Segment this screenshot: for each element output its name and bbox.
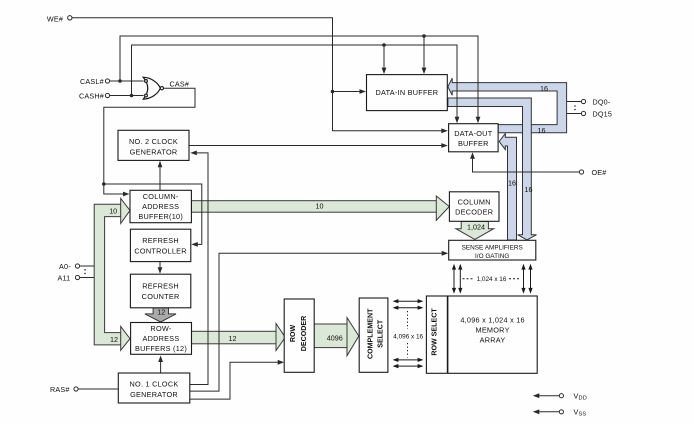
data bus DATA-IN BUFFER to SENSE AMPLIFIERS — [448, 98, 537, 240]
svg-text:REFRESH: REFRESH — [142, 236, 179, 245]
junction dot CASH/DATA-IN — [382, 43, 386, 47]
svg-text:COLUMN-: COLUMN- — [143, 192, 179, 201]
terminal WE# — [68, 16, 72, 20]
double arrows SENSE AMPLIFIERS to MEMORY ARRAY (right) — [523, 266, 525, 292]
wire DQ15 stub — [567, 113, 582, 115]
data bus DQ pads to DATA-IN BUFFER and from DATA-OUT BUFFER — [448, 78, 567, 133]
svg-text:RAS#: RAS# — [50, 385, 70, 394]
svg-text:DATA-IN BUFFER: DATA-IN BUFFER — [375, 88, 438, 97]
junction dot CASL# — [118, 79, 122, 83]
svg-text:MEMORY: MEMORY — [475, 326, 509, 335]
svg-text:CASL#: CASL# — [80, 77, 104, 86]
svg-text:10: 10 — [316, 202, 324, 211]
wire CAS# branch to REFRESH CONTROLLER — [104, 184, 202, 244]
wire DQ0 stub — [567, 101, 582, 103]
wire REFRESH CONTROLLER to REFRESH COUNTER — [159, 262, 161, 272]
terminal CASH# — [105, 93, 109, 97]
wire CASH# to gate input — [110, 95, 144, 97]
arrow into ROW DECODER left — [278, 360, 285, 365]
bus arrowhead into COLUMN-ADDRESS BUFFER — [121, 198, 130, 223]
svg-text:GENERATOR: GENERATOR — [130, 390, 178, 399]
arrow into DATA-IN left — [360, 89, 367, 94]
wire RAS# to NO.1 CLOCK — [78, 388, 118, 390]
svg-text:16: 16 — [540, 84, 548, 93]
box ROW SELECT + MEMORY ARRAY — [426, 296, 537, 373]
arrow into REFRESH COUNTER top — [158, 267, 163, 274]
junction dot CASH# — [130, 94, 134, 98]
wire OE# to DATA-OUT buffer — [473, 154, 580, 172]
ellipsis dots DQ — [574, 105, 576, 107]
box ROW DECODER — [284, 299, 314, 372]
junction dot CAS# branch — [102, 182, 106, 186]
svg-text:DQ15: DQ15 — [593, 109, 613, 118]
gate U1 CAS (NOR shape with bubbles) — [143, 77, 160, 99]
bus 10 COLUMN-ADDRESS to COLUMN DECODER — [191, 201, 436, 213]
svg-text:ROW SELECT: ROW SELECT — [431, 308, 439, 356]
terminal CASL# — [105, 79, 109, 83]
svg-text:1,024 x 16: 1,024 x 16 — [477, 276, 507, 283]
arrow into NO.2 bottom — [158, 161, 163, 168]
svg-text:DATA-OUT: DATA-OUT — [454, 129, 493, 138]
wire CASL branch to DATA-IN top — [423, 36, 425, 72]
svg-text:10: 10 — [109, 207, 117, 216]
terminal OE# — [579, 170, 583, 174]
wire CASH# loop to DATA-OUT top — [132, 45, 458, 121]
svg-text:12: 12 — [229, 334, 237, 343]
svg-text:VDD: VDD — [574, 392, 587, 402]
svg-text:DECODER: DECODER — [300, 316, 308, 351]
svg-text:ROW: ROW — [289, 325, 297, 343]
wire CAS# output loop to COLUMN-ADDRESS BUFFER — [104, 88, 195, 194]
arrow into COLUMN-ADDRESS BUFFER left — [123, 192, 130, 197]
wire NO.2 CLOCK to DATA-OUT buffer — [189, 145, 445, 147]
svg-text:COLUMN: COLUMN — [458, 197, 491, 206]
address bus trunk (A0-A11) — [94, 204, 121, 345]
terminal A11 — [75, 275, 79, 279]
svg-text:16: 16 — [525, 185, 533, 194]
svg-text:VSS: VSS — [574, 408, 587, 418]
svg-text:GENERATOR: GENERATOR — [130, 148, 178, 157]
terminal A0- — [75, 264, 79, 268]
terminal DQ15 — [581, 111, 585, 115]
double arrows COMPLEMENT SELECT to ROW SELECT (top) — [394, 300, 422, 302]
svg-text:4,096 x 16: 4,096 x 16 — [393, 333, 423, 340]
wire WE# branch to DATA-IN left — [333, 91, 365, 93]
box COLUMN DECODER — [449, 192, 499, 222]
box NO. 2 CLOCK GENERATOR — [118, 130, 189, 160]
svg-text:ADDRESS: ADDRESS — [142, 202, 179, 211]
svg-text:ARRAY: ARRAY — [480, 336, 506, 345]
wire CASL# loop to DATA-OUT top — [120, 36, 478, 121]
arrow into REFRESH CONTROLLER right — [191, 242, 198, 247]
svg-text:COUNTER: COUNTER — [142, 292, 180, 301]
svg-text:CAS#: CAS# — [170, 80, 190, 89]
arrow into DATA-IN top (CASL net) — [422, 68, 427, 75]
svg-text:A0-: A0- — [59, 262, 71, 271]
divider ROW SELECT / MEMORY ARRAY — [447, 296, 449, 373]
svg-text:1,024: 1,024 — [467, 223, 485, 232]
terminal DQ0 — [581, 99, 585, 103]
arrow into DATA-OUT top (CASH net) — [455, 117, 460, 124]
bus 1,024 COLUMN DECODER to SENSE AMPLIFIERS — [456, 221, 494, 239]
arrow into NO.2 right — [190, 151, 197, 156]
svg-text:SELECT: SELECT — [376, 319, 384, 348]
double arrows SENSE AMPLIFIERS to MEMORY ARRAY (left) — [453, 266, 455, 292]
svg-text:ADDRESS: ADDRESS — [142, 334, 179, 343]
box COLUMN-ADDRESS BUFFER(10) — [130, 190, 191, 222]
bus 4096 ROW DECODER to COMPLEMENT SELECT — [314, 324, 347, 348]
box COMPLEMENT SELECT — [359, 298, 388, 372]
svg-text:BUFFER(10): BUFFER(10) — [138, 212, 183, 221]
junction dot CASL/DATA-IN — [422, 34, 426, 38]
svg-text:CASH#: CASH# — [79, 91, 104, 100]
box DATA-OUT BUFFER — [449, 124, 499, 152]
wire WE# to DATA-OUT buffer left — [72, 18, 445, 131]
arrow into DATA-OUT top (CASL net) — [476, 117, 481, 124]
svg-text:DQ0-: DQ0- — [593, 97, 611, 106]
svg-text:WE#: WE# — [47, 14, 63, 23]
box DATA-IN BUFFER — [367, 75, 448, 111]
wire COLUMN-ADDRESS BUFFER to NO.2 CLOCK — [159, 163, 161, 190]
svg-text:BUFFER: BUFFER — [458, 139, 489, 148]
gray bus 12 REFRESH COUNTER to ROW-ADDRESS BUFFERS — [145, 308, 176, 322]
svg-text:I/O GATING: I/O GATING — [475, 253, 509, 260]
wire NO.1 CLOCK output to NO.2 CLOCK — [190, 153, 208, 385]
svg-text:A11: A11 — [58, 273, 71, 282]
wire CASL# to gate input — [110, 80, 144, 82]
legend VSS arrow — [535, 411, 559, 413]
box REFRESH CONTROLLER — [130, 229, 190, 261]
wire NO.1 CLOCK to ROW-ADDRESS BUFFERS — [160, 358, 162, 373]
bus 12 ROW-ADDRESS to ROW DECODER — [192, 331, 277, 344]
svg-text:OE#: OE# — [592, 168, 607, 177]
svg-text:16: 16 — [538, 126, 546, 135]
svg-text:NO. 2 CLOCK: NO. 2 CLOCK — [129, 137, 178, 146]
arrow into DATA-IN top (CASH net) — [382, 68, 387, 75]
arrow into DATA-OUT left (WE# net) — [441, 128, 448, 133]
legend VDD arrow — [535, 395, 559, 397]
box ROW-ADDRESS BUFFERS (12) — [131, 323, 192, 355]
data bus SENSE AMPLIFIERS to DATA-OUT BUFFER — [499, 134, 516, 240]
double arrows COMPLEMENT SELECT to ROW SELECT (bottom) — [394, 359, 422, 361]
arrow into SENSE AMPLIFIERS left — [442, 251, 449, 256]
wire CASH branch to DATA-IN top — [383, 45, 385, 72]
svg-text:ROW-: ROW- — [150, 324, 171, 333]
svg-text:4,096 x 1,024 x 16: 4,096 x 1,024 x 16 — [460, 316, 525, 325]
svg-text:4096: 4096 — [327, 334, 343, 343]
svg-text:16: 16 — [508, 178, 516, 187]
bus arrowhead into ROW-ADDRESS BUFFERS — [121, 326, 130, 350]
dashed line 1,024 x 16 — [463, 278, 475, 280]
wire NO.1 CLOCK output to ROW DECODER — [190, 362, 282, 399]
svg-text:BUFFERS (12): BUFFERS (12) — [135, 344, 187, 353]
box SENSE AMPLIFIERS I/O GATING — [449, 240, 536, 260]
svg-text:REFRESH: REFRESH — [142, 282, 179, 291]
box REFRESH COUNTER — [130, 274, 190, 308]
svg-text:SENSE AMPLIFIERS: SENSE AMPLIFIERS — [462, 244, 523, 251]
arrow into DATA-OUT left (NO.2 net) — [441, 143, 448, 148]
ellipsis dots A0-A11 — [84, 269, 86, 271]
junction dot WE#/DATA-IN branch — [331, 90, 335, 94]
wire A11 to address bus — [80, 277, 95, 279]
arrow into DATA-OUT bottom (OE# net) — [470, 152, 475, 159]
terminal RAS# — [74, 387, 78, 391]
dotted line 4,096 x 16 — [407, 311, 409, 329]
svg-text:CONTROLLER: CONTROLLER — [134, 247, 186, 256]
svg-text:NO. 1 CLOCK: NO. 1 CLOCK — [130, 379, 179, 388]
svg-text:12: 12 — [110, 335, 118, 344]
svg-text:DECODER: DECODER — [455, 207, 493, 216]
svg-text:COMPLEMENT: COMPLEMENT — [367, 308, 375, 359]
svg-text:12: 12 — [157, 308, 165, 317]
wire A0 to address bus — [80, 265, 95, 267]
arrow into ROW-ADDRESS bottom — [158, 356, 163, 363]
wire NO.1 CLOCK output to SENSE AMPLIFIERS — [190, 253, 446, 391]
box NO. 1 CLOCK GENERATOR — [118, 373, 190, 403]
